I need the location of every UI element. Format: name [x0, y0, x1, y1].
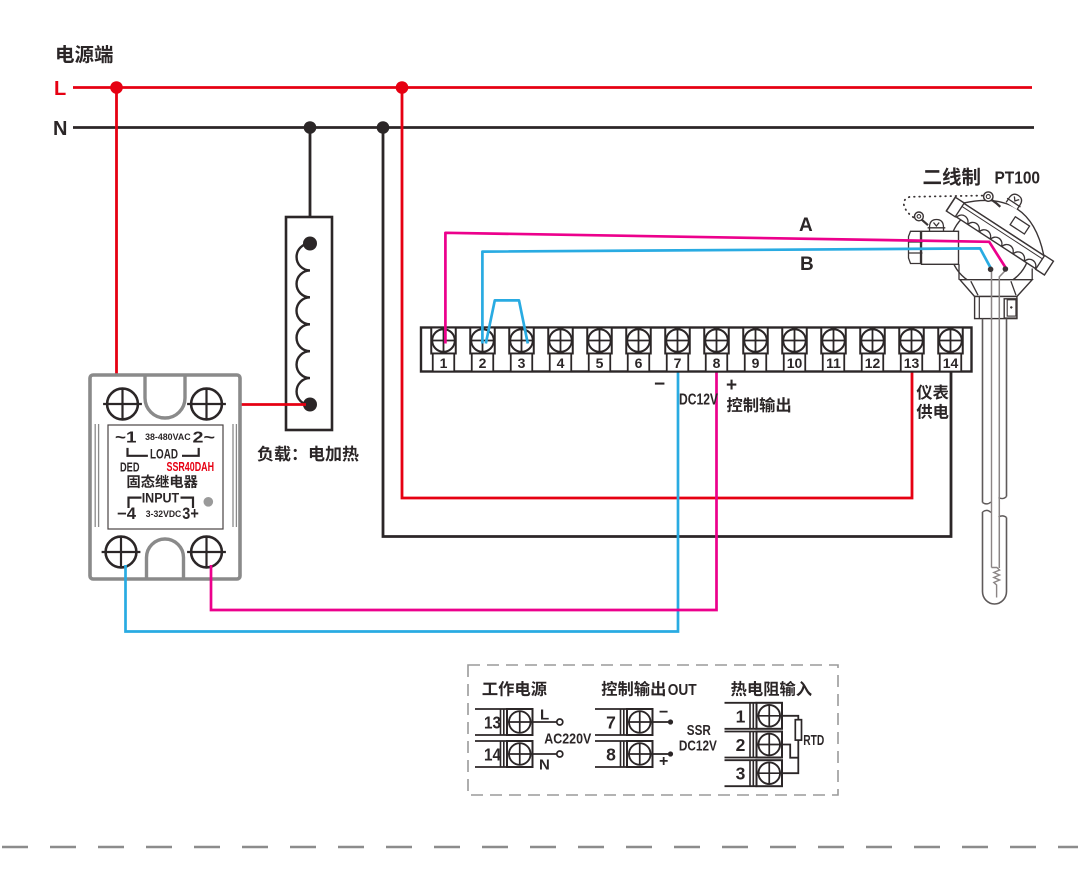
label 仪表	[917, 384, 949, 399]
svg-text:+: +	[726, 375, 737, 396]
heater coil	[297, 244, 311, 406]
wire terminal8 to SSR+3 (magenta)	[211, 371, 717, 610]
svg-text:L: L	[540, 707, 549, 724]
wire N line	[73, 126, 1034, 129]
wire terminal7 to SSR-4 (blue)	[126, 371, 679, 632]
svg-text:4: 4	[557, 355, 565, 371]
probe rtd element	[992, 319, 1000, 598]
sensor lead wire A	[999, 271, 1005, 569]
terminal strip TB1 (1-14)	[421, 328, 972, 372]
legend wire 13-L	[533, 721, 557, 723]
svg-text:+: +	[659, 753, 668, 770]
wire SSR out to heater	[222, 403, 307, 406]
svg-text:A: A	[799, 215, 813, 236]
wire L line	[73, 86, 1032, 89]
svg-text:7: 7	[606, 713, 616, 733]
solid state relay U1 body	[90, 375, 240, 579]
legend terminal 1	[725, 702, 757, 704]
sensor lead wire B	[991, 270, 993, 320]
wire L to terminal 13 (instrument supply)	[402, 88, 912, 499]
probe break marks	[983, 497, 1007, 518]
label 控制输出	[727, 397, 790, 412]
SSR screw terminal 1	[107, 389, 138, 420]
SSR LED	[204, 497, 214, 507]
sensor collar	[975, 297, 1017, 319]
svg-text:B: B	[800, 254, 814, 275]
svg-text:AC220V: AC220V	[544, 731, 591, 748]
svg-text:14: 14	[484, 745, 501, 765]
sensor funnel	[960, 280, 1032, 297]
svg-text:6: 6	[635, 355, 643, 371]
svg-text:12: 12	[865, 355, 881, 371]
wire A terminal1 to sensor (magenta)	[445, 233, 1005, 344]
junction L-x116	[110, 81, 123, 94]
svg-text:OUT: OUT	[668, 682, 697, 699]
svg-text:DC12V: DC12V	[679, 392, 719, 409]
svg-text:−4: −4	[117, 505, 137, 523]
SSR screw terminal 4	[106, 537, 137, 568]
svg-text:N: N	[53, 118, 67, 140]
svg-text:PT100: PT100	[995, 168, 1041, 188]
svg-text:DED: DED	[120, 460, 140, 475]
svg-text:3: 3	[736, 764, 746, 784]
svg-text:3: 3	[518, 355, 526, 371]
chain dotted line	[904, 196, 983, 218]
svg-text:SSR: SSR	[687, 722, 711, 739]
sensor gland dome	[928, 220, 946, 232]
svg-text:7: 7	[674, 355, 682, 371]
dashed separator line	[2, 846, 1078, 848]
sensor head round body	[950, 207, 1030, 287]
svg-text:L: L	[54, 78, 66, 100]
legend wire rtd 1	[782, 716, 798, 720]
svg-text:INPUT: INPUT	[142, 490, 180, 505]
svg-text:SSR40DAH: SSR40DAH	[167, 459, 215, 474]
SSR LOAD brackets	[128, 448, 199, 456]
SSR label 固态继电器	[127, 475, 197, 489]
sensor terminal dot B	[988, 267, 994, 273]
junction N-x310	[304, 121, 317, 134]
SSR INPUT brackets	[129, 498, 194, 508]
wire N to terminal 14 (instrument supply)	[383, 128, 951, 537]
svg-text:2: 2	[736, 735, 746, 755]
svg-text:11: 11	[826, 355, 841, 371]
legend label 工作电源	[483, 681, 547, 696]
sensor hex bushing	[909, 231, 923, 263]
svg-text:1: 1	[440, 355, 448, 371]
legend terminal 7	[595, 708, 627, 710]
wire L to SSR terminal1	[115, 88, 118, 394]
wire jumper terminal2-terminal3 (blue)	[486, 300, 528, 343]
svg-text:N: N	[539, 757, 550, 774]
svg-text:8: 8	[606, 745, 616, 765]
label 二线制 PT100	[924, 167, 980, 185]
heater top node	[303, 237, 317, 251]
sensor terminal dot A	[1003, 266, 1009, 272]
svg-text:14: 14	[943, 355, 959, 371]
wire N to heater top	[309, 128, 312, 244]
svg-text:13: 13	[904, 355, 920, 371]
wire B terminal2 to sensor (blue)	[482, 248, 990, 343]
svg-text:−: −	[659, 704, 668, 721]
sensor neck body	[922, 231, 959, 264]
probe sheath upper	[983, 319, 1007, 503]
legend wire 8-plus	[653, 753, 669, 755]
sensor side block	[1004, 299, 1017, 318]
legend wire rtd 2	[782, 745, 798, 758]
legend terminal 13	[475, 708, 507, 710]
eye screw left	[915, 212, 924, 221]
junction N-x383	[377, 121, 390, 134]
svg-text:38-480VAC: 38-480VAC	[145, 432, 191, 443]
legend wire rtd bottom to 3	[782, 740, 798, 773]
svg-text:DC12V: DC12V	[679, 738, 717, 755]
legend wire 7-minus	[653, 721, 669, 723]
svg-text:13: 13	[484, 713, 501, 733]
svg-text:2: 2	[479, 355, 487, 371]
label 负载：电加热	[258, 446, 359, 462]
heater bottom node	[303, 398, 317, 412]
svg-text:~1: ~1	[115, 430, 137, 447]
svg-text:1: 1	[736, 706, 746, 726]
svg-text:9: 9	[752, 355, 760, 371]
svg-text:5: 5	[596, 355, 604, 371]
SSR label panel	[108, 425, 223, 529]
legend terminal 8	[595, 740, 627, 742]
svg-text:10: 10	[787, 355, 803, 371]
eye screw top	[984, 192, 993, 201]
legend wire 14-N	[533, 753, 557, 755]
junction L-x402	[396, 81, 409, 94]
legend terminal 14	[475, 740, 507, 742]
svg-text:2~: 2~	[193, 430, 216, 447]
legend label 热电阻输入	[731, 681, 812, 697]
legend terminal 2	[725, 731, 757, 733]
heater box	[286, 217, 332, 430]
sensor head ribbed lid	[946, 167, 1073, 275]
legend terminal 3	[725, 759, 757, 761]
SSR screw terminal 3	[191, 537, 222, 568]
legend resistor RTD	[795, 720, 801, 740]
legend label 控制输出 OUT	[602, 681, 665, 696]
svg-text:3+: 3+	[182, 505, 199, 523]
svg-text:8: 8	[713, 355, 721, 371]
svg-text:−: −	[654, 374, 665, 395]
svg-text:RTD: RTD	[803, 733, 824, 749]
label 供电	[917, 404, 949, 419]
probe sheath lower	[983, 512, 1007, 604]
legend dashed box	[468, 665, 838, 795]
svg-text:3-32VDC: 3-32VDC	[146, 509, 182, 520]
SSR screw terminal 2	[191, 389, 222, 420]
label power-terminal 电源端	[57, 45, 113, 63]
